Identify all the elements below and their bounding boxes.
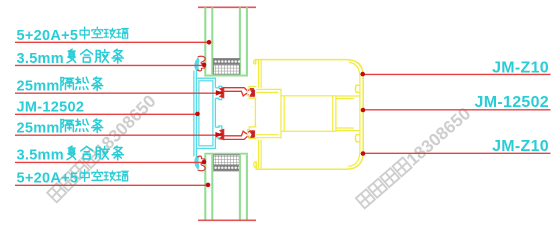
leader to lower thermal break (15, 132, 223, 137)
leader to upper thermal break (15, 90, 223, 95)
mullion right web arms (336, 96, 360, 131)
mullion glazing tick top (JM-Z10 side) (254, 60, 256, 65)
mullion JM-12502 outer contour (yellow) (256, 60, 364, 170)
mullion inner contour line (348, 62, 360, 166)
leader to lower glass pane (15, 183, 210, 188)
mullion left wall upper (double) (259, 60, 262, 87)
pressure plate inner wall (199, 81, 213, 146)
lower gasket 3.5mm (red seal profile) (197, 156, 205, 171)
pressure plate lower thermal-break pocket (215, 126, 221, 139)
upper glass bottom edge (204, 75, 248, 77)
leader to mullion body (361, 108, 551, 113)
mullion upper thermal-break pocket (248, 87, 257, 99)
lower glass top edge (204, 153, 248, 155)
watermark left (45, 91, 160, 206)
upper gasket 3.5mm (cyan part) (195, 58, 199, 71)
label: JM-Z10 (top right) (492, 59, 549, 76)
mullion central chamber (281, 96, 336, 132)
lower glass pane 2 (5mm) (240, 155, 247, 220)
watermark right (354, 103, 474, 211)
leader to pressure plate (15, 112, 200, 117)
upper glass pane 1 (5mm) (205, 7, 212, 74)
break line bottom of lower glass (198, 219, 256, 221)
svg-text:3.5mm: 3.5mm (17, 148, 64, 164)
svg-text:5+20A+5: 5+20A+5 (17, 171, 79, 187)
leader to upper gasket (15, 63, 206, 68)
lower thermal break strip 25mm (219, 129, 255, 140)
mullion bottom web arm (256, 131, 281, 137)
upper thermal break strip 25mm (219, 87, 255, 98)
mullion top web arm (256, 89, 281, 95)
mullion screw boss bottom (355, 135, 359, 142)
label: 25mm thermal break (lower) (17, 119, 103, 136)
mullion lower thermal-break pocket (248, 127, 257, 139)
upper glass spacer with desiccant hatch (213, 59, 240, 75)
pressure plate body outline (196, 78, 215, 148)
label: 3.5mm composite gasket (upper) (17, 49, 124, 67)
svg-text:JM-12502: JM-12502 (475, 94, 549, 111)
pressure plate JM-12502 (cyan) outer left face (194, 71, 197, 157)
leader to mullion bottom cover (361, 151, 551, 156)
label: 3.5mm composite gasket (lower) (17, 146, 124, 164)
svg-text:JM-Z10: JM-Z10 (492, 138, 549, 155)
lower glass pane 1 (5mm) (205, 155, 212, 220)
label: 5+20A+5 insulated glass (top) (17, 27, 129, 44)
mullion left wall lower (double) (259, 140, 262, 169)
svg-text:5+20A+5: 5+20A+5 (17, 28, 79, 44)
pressure plate upper thermal-break pocket (215, 86, 221, 99)
svg-text:JM-12502: JM-12502 (17, 100, 85, 116)
upper gasket 3.5mm (red seal profile) (197, 56, 205, 71)
mullion mid-left vertical between pockets (254, 98, 256, 127)
mullion screw boss top (355, 85, 359, 92)
label: 5+20A+5 insulated glass (bottom) (17, 170, 129, 187)
upper glass pane 2 (5mm) (240, 7, 247, 74)
leader to lower gasket (15, 160, 206, 165)
label: JM-12502 (left) (17, 100, 85, 116)
leader to mullion top cover (360, 72, 550, 77)
lower glass spacer with desiccant hatch (213, 155, 240, 171)
label: JM-12502 (right) (475, 94, 549, 111)
svg-text:3.5mm: 3.5mm (17, 51, 64, 67)
lower gasket 3.5mm (cyan part) (195, 156, 199, 169)
label: 25mm thermal break (upper) (17, 77, 103, 94)
break line top of upper glass (198, 6, 256, 8)
mullion glazing hook bottom (254, 162, 256, 168)
svg-text:25mm: 25mm (17, 78, 60, 94)
svg-text:25mm: 25mm (17, 120, 60, 136)
label: JM-Z10 (bottom right) (492, 138, 549, 155)
leader to upper glass pane (15, 40, 211, 45)
